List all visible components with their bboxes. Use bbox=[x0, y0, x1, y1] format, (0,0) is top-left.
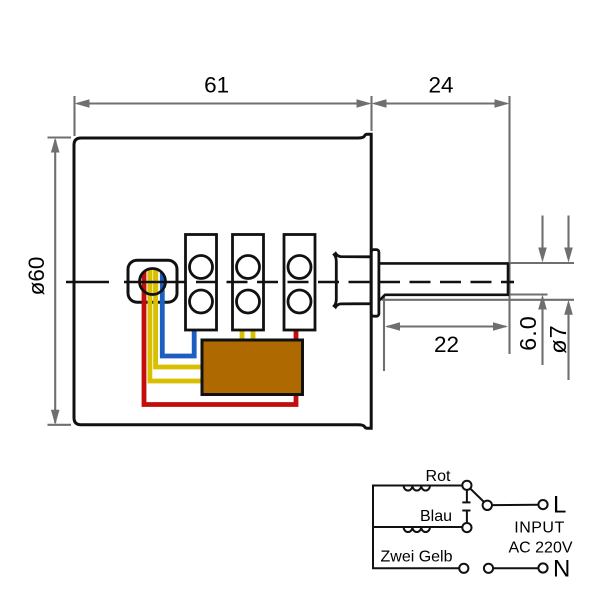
yellow wire inner bbox=[156, 290, 202, 367]
block 3 screws bbox=[288, 256, 311, 279]
svg-text:AC 220V: AC 220V bbox=[508, 540, 572, 557]
grommet circle ring bbox=[140, 269, 166, 295]
svg-text:24: 24 bbox=[428, 73, 453, 98]
flange bbox=[371, 250, 379, 317]
svg-text:Rot: Rot bbox=[426, 468, 451, 485]
terminal Blau bbox=[462, 523, 471, 532]
schematic: Zwei Gelb branch wire bbox=[372, 567, 459, 569]
svg-text:ø7: ø7 bbox=[545, 324, 571, 353]
dimension ø60 (body diameter) bbox=[48, 138, 72, 425]
wire to N bbox=[493, 567, 538, 569]
terminal block 3 bbox=[284, 235, 315, 331]
svg-text:Zwei Gelb: Zwei Gelb bbox=[380, 549, 452, 566]
dimension ø7 (shaft diameter) bbox=[382, 216, 574, 381]
capacitor C1 bbox=[462, 490, 470, 523]
centerline axis bbox=[66, 281, 109, 284]
red stub at block 3 bbox=[294, 328, 299, 342]
switch moving contact bbox=[483, 501, 492, 510]
coil (brown) bbox=[202, 340, 303, 395]
shaft boss bbox=[334, 253, 371, 307]
terminal Rot bbox=[462, 481, 471, 490]
terminal circle L bbox=[538, 500, 547, 509]
schematic: left bus wire bbox=[372, 486, 374, 569]
blue wire bbox=[162, 290, 194, 356]
yellow wire outer bbox=[150, 290, 202, 381]
svg-text:L: L bbox=[553, 492, 566, 519]
connector gap circles bottom bbox=[459, 564, 468, 573]
yellow stubs at block 2 bbox=[240, 328, 245, 342]
coil L1 (Rot) bbox=[404, 486, 430, 491]
schematic: Blau branch wire bbox=[372, 526, 462, 528]
svg-text:INPUT: INPUT bbox=[514, 520, 565, 537]
dimension 22 (flat length) bbox=[384, 297, 508, 371]
dimension 61 (top width) bbox=[75, 96, 372, 136]
switch lever S1 bbox=[470, 489, 484, 503]
dimension 24 (shaft length) bbox=[372, 96, 510, 354]
svg-text:Blau: Blau bbox=[420, 508, 452, 525]
cable grommet bbox=[128, 260, 177, 302]
svg-text:ø60: ø60 bbox=[24, 257, 49, 296]
dimension 6.0 (flat height) bbox=[509, 216, 574, 366]
shaft with flat bbox=[379, 263, 508, 300]
terminal circle N bbox=[538, 563, 547, 572]
wire to L bbox=[492, 504, 538, 506]
schematic: Rot branch wire bbox=[372, 485, 462, 487]
block 2 screws bbox=[237, 256, 260, 279]
svg-text:22: 22 bbox=[434, 332, 459, 357]
terminal block 1 bbox=[186, 235, 217, 331]
red wire bbox=[144, 290, 296, 405]
svg-text:61: 61 bbox=[204, 73, 229, 98]
motor body outline bbox=[74, 134, 371, 428]
svg-text:6.0: 6.0 bbox=[515, 315, 541, 351]
coil L2 (Blau) bbox=[404, 527, 430, 532]
terminal block 2 bbox=[233, 235, 264, 331]
block 1 screws bbox=[190, 256, 213, 279]
svg-text:N: N bbox=[553, 556, 570, 583]
